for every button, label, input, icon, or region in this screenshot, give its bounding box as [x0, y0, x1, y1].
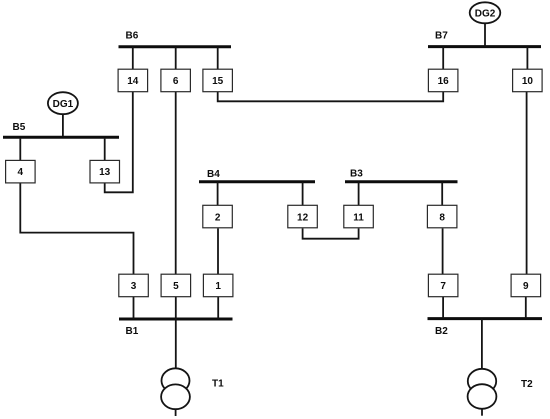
switch 16: [428, 69, 458, 92]
switch 11: [344, 205, 374, 228]
wire transformer T2 tail: [481, 409, 483, 416]
bus B6: [119, 45, 232, 48]
svg-text:12: 12: [297, 212, 309, 223]
wire switch 10 to switch 9: [526, 92, 528, 275]
wire bus B5 to switch 13: [104, 139, 106, 161]
switch 14: [118, 69, 148, 92]
switch 12: [288, 205, 318, 228]
svg-text:1: 1: [215, 281, 221, 292]
svg-text:4: 4: [18, 167, 24, 178]
switch 13: [90, 160, 120, 183]
switch 5: [161, 274, 191, 297]
bus B2: [428, 317, 543, 320]
switch 1: [203, 274, 233, 297]
bus B4: [199, 180, 315, 183]
wire switch 9 to bus B2: [525, 297, 527, 319]
svg-text:B4: B4: [207, 169, 220, 180]
svg-text:6: 6: [173, 76, 179, 87]
switch 6: [161, 69, 191, 92]
wire switch 6 to switch 5: [175, 92, 177, 275]
wire bus B6 to switch 15: [217, 47, 219, 69]
svg-text:DG2: DG2: [475, 8, 496, 19]
wire bus B6 to switch 14: [132, 47, 134, 69]
generator DG1: [48, 92, 78, 114]
svg-text:11: 11: [353, 212, 364, 223]
svg-text:8: 8: [439, 212, 445, 223]
switch 8: [427, 205, 457, 228]
wire bus B6 to switch 6: [175, 47, 177, 69]
svg-text:2: 2: [215, 212, 221, 223]
svg-text:14: 14: [127, 76, 139, 87]
bus B7: [428, 45, 541, 48]
wire switch 5 through bus B1 to transformer T1: [175, 297, 177, 369]
svg-text:B2: B2: [435, 326, 448, 337]
svg-text:13: 13: [99, 167, 111, 178]
wire bus B7 to switch 10: [526, 47, 528, 70]
svg-text:B7: B7: [435, 31, 448, 42]
svg-text:T2: T2: [521, 379, 533, 390]
wire bus B7 to switch 16: [442, 47, 444, 70]
wire switch 1 to bus B1: [217, 297, 219, 319]
switch 2: [203, 205, 233, 228]
bus B3: [345, 180, 458, 183]
wire switch 15 to switch 16: [218, 92, 444, 102]
wire switch 12 to switch 11: [303, 229, 359, 239]
wire bus B5 to switch 4: [19, 139, 21, 161]
svg-text:16: 16: [438, 76, 450, 87]
svg-text:B3: B3: [350, 169, 363, 180]
wire bus B4 to switch 12: [302, 182, 304, 205]
transformer T1: [161, 368, 190, 409]
switch 15: [203, 69, 233, 92]
wire switch 4 to switch 3: [20, 182, 133, 274]
wire bus B3 to switch 11: [358, 182, 360, 205]
svg-text:9: 9: [523, 281, 529, 292]
svg-text:10: 10: [522, 76, 534, 87]
svg-text:5: 5: [173, 281, 179, 292]
svg-text:B6: B6: [126, 31, 139, 42]
svg-text:B5: B5: [13, 122, 26, 133]
wire bus B2 to transformer T2: [481, 319, 483, 369]
wire DG1 to bus B5: [62, 114, 64, 136]
transformer T2: [468, 369, 497, 409]
wire switch 8 to switch 7: [442, 229, 444, 275]
wire switch 7 to bus B2: [442, 297, 444, 319]
bus B5: [3, 136, 119, 139]
switch 4: [6, 160, 35, 183]
svg-text:T1: T1: [212, 379, 224, 390]
generator DG2: [470, 2, 501, 23]
wire transformer T1 tail: [175, 409, 177, 416]
bus B1: [119, 318, 233, 321]
wire switch 13 to switch 14: [105, 92, 133, 193]
svg-text:7: 7: [440, 281, 446, 292]
switch 9: [511, 274, 540, 297]
wire bus B3 to switch 8: [441, 182, 443, 205]
switch 7: [428, 274, 458, 297]
svg-text:DG1: DG1: [53, 99, 74, 110]
switch 10: [513, 69, 543, 92]
svg-text:15: 15: [212, 76, 224, 87]
wire switch 3 to bus B1: [133, 297, 135, 319]
wire DG2 to bus B7: [484, 23, 486, 46]
svg-text:B1: B1: [126, 326, 139, 337]
wire switch 2 to switch 1: [217, 229, 219, 275]
svg-text:3: 3: [131, 281, 137, 292]
switch 3: [119, 274, 149, 297]
wire bus B4 to switch 2: [217, 182, 219, 205]
